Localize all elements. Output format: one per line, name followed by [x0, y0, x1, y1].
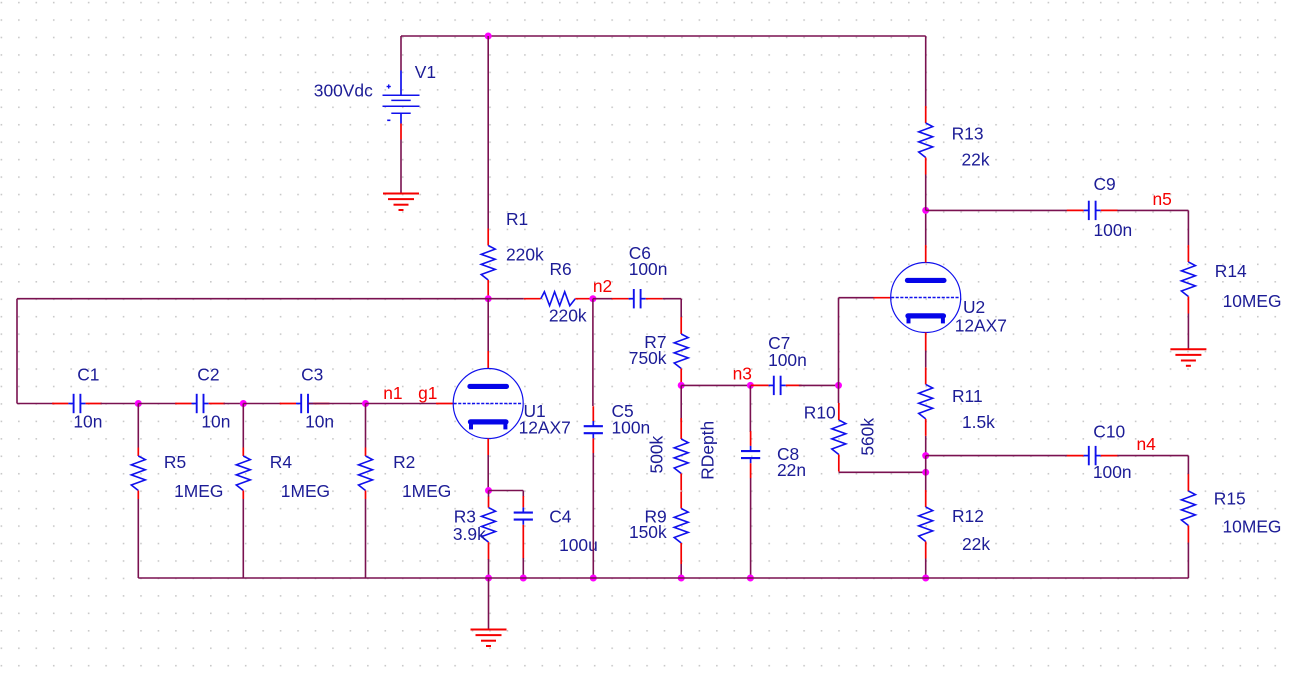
svg-text:750k: 750k: [629, 348, 667, 368]
wire C5 bottom: [592, 453, 594, 578]
svg-text:C2: C2: [197, 365, 219, 385]
resistor R2 (1MEG): [359, 448, 373, 500]
wire R2 bottom: [365, 499, 367, 578]
wire n5 down to R14: [1187, 210, 1189, 245]
wire cathode node to C4: [489, 490, 524, 492]
ground GND main: [471, 630, 507, 647]
svg-text:1MEG: 1MEG: [174, 481, 223, 501]
svg-text:n5: n5: [1153, 189, 1172, 209]
wire U2 cathode to R11: [925, 351, 927, 368]
svg-text:C4: C4: [549, 506, 572, 526]
resistor R3 (3.9k): [482, 497, 496, 560]
svg-text:C1: C1: [77, 365, 99, 385]
wire C2 to R4 node: [224, 403, 244, 405]
ground GND R14: [1170, 349, 1206, 366]
svg-text:560k: 560k: [858, 418, 878, 456]
svg-text:n2: n2: [593, 276, 612, 296]
wire R15 bottom: [1187, 543, 1189, 579]
U1 cathode pin: [487, 439, 489, 456]
wire C8 bottom: [750, 478, 752, 578]
svg-text:100n: 100n: [768, 350, 807, 370]
svg-text:22k: 22k: [962, 534, 990, 554]
capacitor C8 (22n): [741, 431, 760, 478]
U2 anode pin: [925, 245, 927, 263]
junction node n1: [362, 400, 369, 407]
svg-text:150k: 150k: [629, 522, 667, 542]
resistor R9 (150k): [674, 492, 688, 565]
resistor R5 (1MEG): [131, 448, 145, 500]
svg-text:R12: R12: [952, 506, 984, 526]
U1 anode pin: [487, 351, 489, 369]
resistor RDepth upper 500k (500k): [674, 418, 688, 491]
resistor R13 (22k): [919, 106, 933, 175]
svg-text:R6: R6: [550, 259, 572, 279]
wire n2 to C6: [593, 298, 612, 300]
svg-text:R1: R1: [506, 209, 528, 229]
wire to U2 grid: [839, 297, 874, 299]
svg-text:12AX7: 12AX7: [955, 315, 1007, 335]
wire R12 bottom: [925, 559, 927, 579]
wire R1 node to U1 anode: [487, 299, 489, 351]
capacitor C6 (100n): [612, 289, 663, 308]
triode U2 12AX7: [891, 263, 961, 333]
svg-text:R5: R5: [164, 452, 186, 472]
wire V1 to ground: [400, 140, 402, 194]
svg-text:10n: 10n: [305, 412, 334, 432]
wire n5: [1117, 209, 1188, 211]
svg-text:100n: 100n: [1093, 462, 1132, 482]
svg-text:n4: n4: [1137, 434, 1157, 454]
wire C10 node right: [926, 455, 1067, 457]
wire R10 bottom corner: [838, 471, 840, 473]
svg-text:U2: U2: [963, 297, 985, 317]
wire R4 bottom: [242, 499, 244, 578]
svg-text:R15: R15: [1214, 488, 1246, 508]
resistor R14 (10MEG): [1181, 245, 1195, 314]
junction R11 / C10: [922, 452, 929, 459]
resistor R10 (560k): [832, 403, 846, 472]
U2 grid pin: [874, 297, 891, 299]
wire top rail to R13: [925, 36, 927, 106]
svg-text:V1: V1: [415, 62, 436, 82]
svg-text:10MEG: 10MEG: [1223, 291, 1282, 311]
resistor R15 (10MEG): [1181, 474, 1195, 543]
wire R10 to R12 node: [839, 471, 926, 473]
wire R9 bottom: [680, 564, 682, 578]
svg-text:R2: R2: [393, 452, 415, 472]
wire n4: [1117, 455, 1188, 457]
wire C9 node right: [926, 209, 1067, 211]
svg-text:C9: C9: [1094, 174, 1116, 194]
wire R4 top: [242, 404, 244, 448]
junction C5 / bus: [590, 575, 597, 582]
wire top rail to R1: [487, 36, 489, 229]
capacitor C9 (100n): [1067, 201, 1118, 220]
wire top rail: [401, 35, 926, 37]
svg-text:10n: 10n: [201, 412, 230, 432]
wire C6 to corner: [663, 298, 682, 300]
svg-text:R4: R4: [270, 452, 293, 472]
junction C8 / bus: [747, 575, 754, 582]
U2 cathode pin: [925, 333, 927, 351]
resistor R12 (22k): [919, 490, 933, 559]
svg-text:10MEG: 10MEG: [1223, 517, 1282, 537]
svg-text:100n: 100n: [1094, 220, 1133, 240]
wire U1 cathode to node: [487, 455, 489, 491]
wire corner down to R7: [680, 299, 682, 317]
wire C4 top: [522, 491, 524, 498]
svg-text:10n: 10n: [73, 412, 102, 432]
capacitor C4 (100u): [514, 496, 533, 559]
junction R10 wire: [922, 469, 929, 476]
wire V1 top lead: [400, 36, 402, 71]
wire R5 bottom: [137, 499, 139, 578]
wire C1 to R5 node: [101, 403, 139, 405]
wire R4 node to C3: [243, 403, 281, 405]
voltage source V1 300Vdc (battery): [383, 71, 420, 124]
capacitor C2 (10n): [175, 394, 225, 413]
wire R1 node to R6: [488, 298, 524, 300]
resistor R6 (220k): [524, 292, 593, 306]
wire n4 down to R15: [1187, 456, 1189, 474]
resistor R1 (220k): [481, 229, 495, 298]
wire R3 bottom: [488, 559, 490, 578]
wire R7 node down to RDepth: [680, 385, 682, 422]
V1 minus mark: [387, 119, 390, 121]
capacitor C10 (100n): [1067, 446, 1118, 465]
svg-text:C10: C10: [1093, 421, 1125, 441]
svg-text:R10: R10: [804, 403, 836, 423]
V1 plus mark: [387, 84, 391, 88]
svg-text:3.9k: 3.9k: [453, 524, 486, 544]
wire R14 to ground: [1187, 314, 1189, 350]
wire node up to U2 grid row: [838, 298, 840, 386]
svg-text:22k: 22k: [962, 149, 990, 169]
wire R5 top: [137, 404, 139, 448]
capacitor C3 (10n): [280, 394, 330, 413]
resistor R4 (1MEG): [236, 448, 250, 500]
junction node below R1: [485, 295, 492, 302]
resistor R7 (750k): [674, 317, 688, 386]
junction node n2: [589, 295, 596, 302]
junction R12 / bus: [922, 575, 929, 582]
wire C4 bottom: [522, 558, 524, 578]
svg-text:n3: n3: [733, 364, 752, 384]
junction C2/R4: [240, 400, 247, 407]
wire R11 bottom: [925, 436, 927, 456]
junction R3 / bus: [485, 575, 492, 582]
capacitor C7 (100n): [751, 376, 802, 395]
U1 grid pin: [436, 403, 453, 405]
wire n1 to U1 grid: [366, 403, 437, 405]
junction cathode node: [485, 487, 492, 494]
wire R2 top: [365, 404, 367, 448]
svg-text:100u: 100u: [559, 535, 598, 555]
wire R12 top: [925, 456, 927, 490]
svg-text:300Vdc: 300Vdc: [314, 81, 373, 101]
svg-text:g1: g1: [418, 383, 437, 403]
wire C7 to U2 node: [799, 384, 839, 386]
svg-text:RDepth: RDepth: [698, 421, 718, 480]
wire n3 down: [749, 385, 751, 432]
V1 bottom pin: [400, 124, 402, 140]
wire n2 down: [592, 299, 594, 406]
junction top rail / R1: [485, 33, 492, 40]
wire R5 node to C2: [138, 403, 176, 405]
wire R7 node to n3: [681, 384, 750, 386]
junction node n3: [747, 382, 754, 389]
capacitor C1 (10n): [52, 394, 102, 413]
svg-text:1MEG: 1MEG: [402, 481, 451, 501]
svg-text:500k: 500k: [647, 435, 667, 473]
svg-text:R14: R14: [1215, 261, 1247, 281]
svg-text:R13: R13: [952, 124, 984, 144]
wire C3 to node n1: [308, 403, 365, 405]
wire U2 anode to C9 node: [925, 210, 927, 245]
svg-text:R11: R11: [952, 386, 983, 406]
junction R7 bottom: [678, 382, 685, 389]
capacitor C5 (100n): [584, 406, 603, 453]
junction C9 tap: [922, 207, 929, 214]
wire bus to ground: [488, 578, 490, 630]
junction C1/R5: [135, 400, 142, 407]
svg-text:n1: n1: [383, 383, 402, 403]
wire cathode node down: [488, 491, 490, 498]
svg-text:220k: 220k: [506, 244, 544, 264]
svg-text:1MEG: 1MEG: [281, 481, 330, 501]
wire feedback horizontal: [17, 298, 488, 300]
ground GND V1: [383, 194, 419, 211]
svg-text:100n: 100n: [629, 259, 668, 279]
wire bottom bus: [138, 577, 1188, 579]
resistor R11 (1.5k): [919, 367, 933, 436]
svg-text:22n: 22n: [777, 460, 806, 480]
triode U1 12AX7: [453, 369, 523, 439]
junction C7/R10/U2: [835, 382, 842, 389]
wire node to R10: [838, 385, 840, 403]
svg-text:220k: 220k: [549, 305, 587, 325]
svg-text:C3: C3: [301, 365, 323, 385]
svg-text:12AX7: 12AX7: [519, 418, 571, 438]
svg-text:100n: 100n: [612, 418, 651, 438]
wire R13 to C9 node: [925, 175, 927, 211]
wire feedback to C1: [17, 403, 54, 405]
wire feedback vertical: [16, 299, 18, 404]
junction R9 / bus: [678, 575, 685, 582]
svg-text:1.5k: 1.5k: [962, 412, 995, 432]
junction C4 / bus: [520, 575, 527, 582]
